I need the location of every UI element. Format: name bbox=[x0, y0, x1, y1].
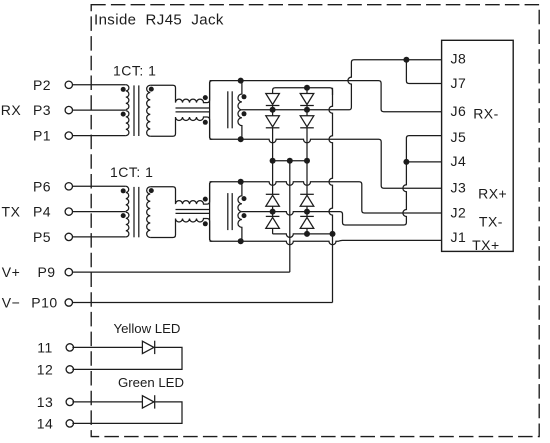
junction TX tap at diode column 2 bbox=[304, 209, 310, 215]
wire TX center tap to J4/J5 riser bbox=[242, 136, 442, 225]
wire pin P9 bbox=[73, 271, 290, 273]
transformer T2 RX secondary winding (center-tapped) bbox=[238, 81, 242, 140]
svg-text:J4: J4 bbox=[451, 153, 467, 169]
transformer T2 RX core bbox=[228, 91, 232, 128]
svg-text:1CT: 1: 1CT: 1 bbox=[113, 62, 156, 78]
svg-text:P1: P1 bbox=[33, 128, 51, 144]
wire pin P10 bbox=[73, 302, 333, 304]
diode D7 (TX col2 upper) bbox=[300, 193, 314, 195]
pin P5 terminal bbox=[65, 233, 72, 240]
wire pin P3 bbox=[73, 109, 126, 111]
wire D5 to tap bbox=[272, 206, 274, 216]
wire V- riser (P10) bbox=[329, 88, 332, 303]
wire pin P6 bbox=[73, 185, 126, 187]
junction anode bus col2 bbox=[304, 231, 310, 237]
svg-text:J6: J6 bbox=[451, 103, 467, 119]
svg-text:P3: P3 bbox=[33, 102, 51, 118]
wire D4 to cathode bus bbox=[306, 128, 308, 161]
wire D6 to anode bus bbox=[272, 228, 274, 234]
transformer T2 RX phase dots bbox=[242, 94, 247, 116]
transformer T2 TX primary (left leg) bbox=[209, 183, 211, 240]
wire RX bottom rail to J3 (RX+) bbox=[210, 139, 442, 188]
svg-text:TX-: TX- bbox=[479, 214, 503, 230]
common-mode choke RX lower phase dot bbox=[203, 120, 208, 125]
pin P6 terminal bbox=[65, 183, 72, 190]
diode D1 (RX col1 upper) bbox=[266, 94, 280, 105]
wire J8 branch down to J7 bbox=[406, 60, 441, 84]
wire V+ riser (P9) bbox=[289, 161, 291, 272]
pin P2 terminal bbox=[65, 81, 72, 88]
wire RX top rail to J6 (RX-) bbox=[210, 81, 442, 112]
wire D3-D4 link bbox=[306, 106, 308, 116]
svg-text:P9: P9 bbox=[37, 264, 55, 280]
common-mode choke TX upper phase dot bbox=[203, 197, 208, 202]
pin P4 terminal bbox=[65, 208, 72, 215]
svg-text:13: 13 bbox=[37, 394, 54, 410]
junction TX tap at diode column 1 bbox=[270, 209, 276, 215]
pin P9 terminal bbox=[65, 268, 72, 275]
common-mode choke RX lower winding bbox=[150, 117, 212, 139]
svg-text:RX-: RX- bbox=[473, 105, 499, 121]
wire pin P1 bbox=[73, 135, 126, 137]
common-mode choke RX core bbox=[176, 108, 210, 112]
common-mode choke TX upper winding bbox=[150, 182, 212, 204]
common-mode choke TX lower phase dot bbox=[203, 221, 208, 226]
wire TX top rail to J2 (TX-) bbox=[210, 182, 442, 213]
svg-text:J2: J2 bbox=[451, 205, 467, 221]
svg-text:J8: J8 bbox=[451, 51, 467, 67]
transformer T1 RX core bbox=[134, 85, 139, 136]
transformer T2 RX primary (left leg) bbox=[209, 82, 211, 139]
svg-text:J7: J7 bbox=[451, 75, 467, 91]
junction cathode col2 bbox=[304, 158, 310, 164]
transformer T1 RX primary winding bbox=[126, 85, 129, 136]
svg-text:TX: TX bbox=[2, 204, 21, 220]
transformer T1 RX phase dots bbox=[121, 87, 126, 117]
wire RX center tap to riser bbox=[242, 60, 442, 110]
wire TX anode bus (V-) bbox=[273, 234, 333, 238]
junction cathode V+ riser bbox=[287, 158, 293, 164]
junction cathode col1 bbox=[270, 158, 276, 164]
green LED diode bbox=[142, 396, 154, 408]
transformer T1 TX secondary winding bbox=[147, 187, 154, 238]
svg-text:P10: P10 bbox=[31, 295, 57, 311]
diode D5 (TX col1 upper) bbox=[266, 193, 280, 195]
wire D2 to cathode bus bbox=[272, 128, 274, 161]
green LED loop wire bbox=[72, 402, 182, 424]
svg-text:V+: V+ bbox=[2, 264, 21, 280]
common-mode choke TX lower winding bbox=[150, 219, 212, 242]
junction T2 RX top bbox=[238, 78, 244, 84]
wire TX col2 from V+ bus down bbox=[306, 161, 308, 195]
junction T2 TX top bbox=[238, 179, 244, 185]
svg-text:Green LED: Green LED bbox=[118, 375, 184, 390]
wire pin P5 bbox=[73, 236, 126, 238]
svg-text:11: 11 bbox=[37, 339, 53, 355]
svg-text:RX: RX bbox=[1, 102, 22, 118]
svg-text:P5: P5 bbox=[33, 229, 51, 245]
diode D4 (RX col2 lower) bbox=[300, 116, 314, 127]
junction T2 TX bottom bbox=[238, 238, 244, 244]
wire RX col2 top stub bbox=[306, 88, 308, 94]
junction anode bus at column 2 bbox=[304, 85, 310, 91]
svg-text:RX+: RX+ bbox=[478, 186, 507, 202]
common-mode choke TX core bbox=[176, 210, 210, 214]
transformer T1 TX primary winding bbox=[126, 186, 129, 237]
pin P1 terminal bbox=[65, 132, 72, 139]
transformer T1 TX phase dots bbox=[121, 188, 126, 218]
yellow LED diode bbox=[142, 341, 154, 353]
wire J4 feed bbox=[406, 161, 441, 163]
wire RX diode anode bus bbox=[273, 88, 333, 95]
wire pin P4 bbox=[73, 211, 126, 213]
wire D8 to anode bus bbox=[306, 228, 308, 234]
diode D3 (RX col2 upper) bbox=[300, 94, 314, 105]
junction RX tap at diode column 1 bbox=[270, 107, 276, 113]
wire TX col1 from V+ bus down bbox=[272, 161, 274, 195]
svg-text:12: 12 bbox=[37, 361, 54, 377]
wire cathode bus (V+) bbox=[273, 160, 307, 162]
svg-text:P2: P2 bbox=[33, 77, 51, 93]
yellow LED loop wire bbox=[72, 347, 182, 369]
pin P3 terminal bbox=[65, 106, 72, 113]
diode D6 (TX col1 lower) bbox=[266, 215, 280, 217]
svg-text:1CT: 1: 1CT: 1 bbox=[110, 164, 153, 180]
svg-text:P6: P6 bbox=[33, 178, 51, 194]
transformer T1 RX secondary winding bbox=[147, 85, 154, 136]
junction J4/J5 node bbox=[403, 159, 409, 165]
wire pin P2 bbox=[73, 84, 126, 86]
svg-text:V−: V− bbox=[2, 295, 21, 311]
svg-text:J3: J3 bbox=[451, 180, 467, 196]
svg-text:J1: J1 bbox=[451, 229, 467, 245]
svg-text:P4: P4 bbox=[33, 204, 51, 220]
transformer T2 TX phase dots bbox=[242, 196, 247, 218]
diode D8 (TX col2 lower) bbox=[300, 215, 314, 217]
pin 13 terminal bbox=[66, 398, 73, 405]
svg-text:14: 14 bbox=[37, 415, 54, 431]
transformer T2 TX core bbox=[228, 193, 232, 230]
svg-text:Yellow LED: Yellow LED bbox=[114, 321, 181, 336]
pin 11 terminal bbox=[66, 344, 73, 351]
wire D7 to tap bbox=[306, 206, 308, 216]
svg-text:TX+: TX+ bbox=[472, 237, 500, 253]
junction J8 node bbox=[403, 57, 409, 63]
junction T2 RX bottom bbox=[238, 136, 244, 142]
common-mode choke RX upper phase dot bbox=[203, 95, 208, 100]
pin 12 terminal bbox=[66, 366, 73, 373]
svg-text:J5: J5 bbox=[451, 129, 467, 145]
connector J box outline bbox=[442, 40, 514, 251]
transformer T2 TX secondary winding (center-tapped) bbox=[238, 182, 242, 241]
diode D2 (RX col1 lower) bbox=[266, 116, 280, 127]
pin 14 terminal bbox=[66, 420, 73, 427]
svg-text:Inside RJ45 Jack: Inside RJ45 Jack bbox=[94, 12, 224, 29]
junction RX tap at diode column 2 bbox=[304, 107, 310, 113]
junction anode bus V- riser bbox=[330, 231, 336, 237]
pin P10 terminal bbox=[65, 299, 72, 306]
common-mode choke RX upper winding bbox=[150, 81, 212, 103]
transformer T1 TX core bbox=[134, 187, 139, 237]
wire TX bottom rail to J1 (TX+) bbox=[210, 240, 442, 244]
dashed enclosure "Inside RJ45 Jack" bbox=[91, 5, 539, 437]
wire D1-D2 link bbox=[272, 106, 274, 116]
